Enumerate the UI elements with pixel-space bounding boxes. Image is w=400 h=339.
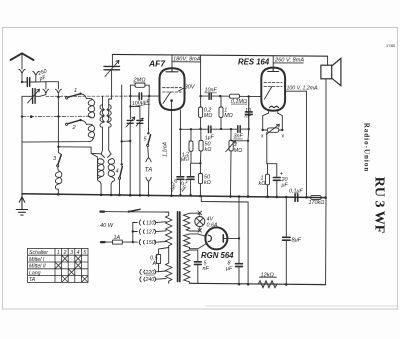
capacitor 1uF series bbox=[209, 126, 211, 133]
node bbox=[179, 194, 182, 197]
svg-text:RGN 564: RGN 564 bbox=[201, 251, 234, 260]
oscillator vertical to switch 4 bbox=[121, 85, 123, 165]
bottom rail bbox=[190, 283, 326, 284]
selector sockets bbox=[133, 220, 145, 225]
RES164 cathode arcs bbox=[270, 106, 279, 107]
wire trimmer1 down to bus bbox=[129, 123, 131, 194]
node bbox=[219, 95, 221, 97]
node bbox=[189, 194, 192, 197]
wire to coil E bbox=[58, 147, 91, 154]
top bus bbox=[112, 54, 327, 56]
wire coilB bottom to left rail bbox=[22, 139, 93, 142]
svg-text:0,1MΩ: 0,1MΩ bbox=[231, 99, 247, 105]
capacitor 3nF series bbox=[238, 126, 240, 133]
svg-text:3nF: 3nF bbox=[234, 134, 244, 140]
capacitor 8uF right bbox=[283, 237, 290, 240]
transformer E/F with former bbox=[91, 154, 101, 180]
svg-text:180V; 8mA: 180V; 8mA bbox=[173, 57, 201, 63]
potentiometer hum bbox=[267, 128, 279, 132]
X marks bbox=[62, 255, 69, 262]
resistor 50k upper bbox=[199, 129, 202, 163]
grid cap wire bbox=[129, 85, 131, 96]
wire AF7 cathode down to bus bbox=[171, 101, 173, 196]
switch 3 bbox=[58, 153, 61, 155]
wire grid-node right to AF7 bbox=[149, 95, 160, 97]
resistor 1,2M bbox=[190, 129, 192, 163]
tube RES164 neck bbox=[263, 110, 283, 130]
wire coil D bottom down bbox=[109, 127, 111, 154]
capacitor 100pF grid bbox=[130, 85, 149, 96]
ground bbox=[16, 194, 27, 215]
svg-text:1: 1 bbox=[57, 250, 60, 256]
node bbox=[179, 128, 181, 130]
wire to TA jack bbox=[147, 147, 150, 158]
antenna bbox=[11, 53, 34, 60]
wire 2M top to 248 bbox=[231, 140, 248, 142]
svg-text:170kΩ: 170kΩ bbox=[309, 200, 325, 206]
wire 180V underline bbox=[172, 61, 200, 63]
svg-text:40 W: 40 W bbox=[100, 223, 114, 229]
TA jack upper bbox=[146, 158, 151, 162]
wire coil C top to grid line bbox=[102, 96, 104, 104]
svg-text:10nF: 10nF bbox=[205, 88, 218, 94]
svg-text:A: A bbox=[152, 261, 157, 267]
wire bus stub to heater line bbox=[201, 196, 248, 284]
node bbox=[57, 146, 59, 148]
switch 2 bbox=[66, 123, 68, 125]
wire RES grid node down bbox=[248, 95, 250, 97]
svg-text:Lang: Lang bbox=[29, 270, 41, 276]
node bbox=[230, 128, 232, 130]
wire bbox=[122, 140, 131, 142]
switch table bbox=[28, 248, 88, 282]
AF7 cathode bbox=[170, 99, 173, 102]
transformer primary tap plugs bbox=[140, 269, 145, 274]
svg-text:0,1μF: 0,1μF bbox=[289, 188, 303, 194]
wire 100V line bbox=[285, 91, 306, 197]
node bbox=[199, 162, 201, 164]
svg-text:1: 1 bbox=[74, 88, 77, 94]
svg-text:Mittel II: Mittel II bbox=[29, 264, 46, 270]
wire speaker return bbox=[325, 79, 327, 285]
svg-text:4: 4 bbox=[116, 169, 119, 175]
wire y129 bbox=[180, 128, 207, 130]
dial lamp loop bbox=[190, 213, 200, 231]
svg-text:MΩ: MΩ bbox=[224, 113, 233, 119]
wire from left socket to trimmer bbox=[35, 95, 46, 97]
svg-text:MΩ: MΩ bbox=[234, 148, 243, 154]
svg-text:0,6A: 0,6A bbox=[207, 223, 218, 229]
wires to RGN bbox=[190, 234, 207, 249]
wire trimmer2 down to bus bbox=[139, 123, 141, 194]
svg-text:TA: TA bbox=[145, 167, 153, 174]
wire bridge bbox=[46, 82, 59, 89]
wire trimmer to left rail bbox=[22, 96, 33, 194]
coil C bbox=[55, 167, 61, 194]
variable capacitor ant trimmer bbox=[33, 89, 36, 104]
svg-text:150: 150 bbox=[146, 240, 155, 246]
svg-text:kΩ: kΩ bbox=[205, 147, 212, 153]
RES164 grid dashes bbox=[264, 83, 282, 87]
wire x248 vertical bbox=[247, 96, 250, 196]
svg-text:nF: nF bbox=[203, 266, 210, 272]
main bus bbox=[22, 194, 326, 198]
dashed gang line (grid) bbox=[46, 95, 130, 97]
wire RGN to filter bbox=[223, 237, 239, 239]
node bbox=[129, 95, 131, 97]
mains switch wire bbox=[100, 211, 168, 214]
wire 8uF right branch bbox=[285, 197, 287, 237]
svg-text:1A: 1A bbox=[114, 235, 121, 241]
node RES grid bbox=[248, 95, 250, 97]
HT secondary bbox=[184, 250, 190, 283]
svg-text:2MΩ: 2MΩ bbox=[133, 78, 147, 84]
resistor 12k zigzag bbox=[258, 281, 277, 288]
capacitor C-ant series bbox=[22, 81, 36, 83]
wire top bus left end down to trimmer bbox=[111, 54, 113, 66]
RGN anode left bbox=[208, 235, 211, 241]
capacitor 20uF bbox=[273, 178, 280, 181]
variable capacitor osc trimmer 2 bbox=[137, 120, 143, 123]
mains selector vertical bbox=[132, 223, 134, 243]
AF7 inner lead bbox=[163, 92, 171, 104]
node bbox=[148, 95, 150, 97]
capacitor 0,1uF bbox=[286, 196, 306, 198]
fuse 1A bbox=[101, 241, 133, 243]
wire coil D top to top trimmer bbox=[109, 70, 112, 105]
x mark lamp bottom bbox=[198, 229, 202, 233]
resistor 0,1M bbox=[220, 95, 249, 97]
svg-text:127: 127 bbox=[146, 230, 156, 236]
node antenna junction bbox=[21, 81, 23, 83]
svg-text:Schalter: Schalter bbox=[29, 250, 48, 256]
speaker bbox=[321, 65, 332, 79]
svg-text:3: 3 bbox=[70, 250, 73, 256]
resistor 170k bbox=[307, 196, 326, 198]
node bbox=[129, 105, 131, 107]
fuse 0,5A bbox=[159, 248, 169, 272]
svg-text:1,1mA: 1,1mA bbox=[163, 141, 169, 157]
svg-text:240: 240 bbox=[145, 277, 155, 283]
resistor 1M bbox=[220, 96, 222, 129]
antenna plug socket bbox=[19, 69, 25, 74]
svg-text:MΩ: MΩ bbox=[204, 113, 213, 119]
RGN filament secondary bbox=[184, 234, 190, 249]
svg-text:8μF: 8μF bbox=[292, 238, 302, 244]
svg-text:TA: TA bbox=[29, 277, 36, 283]
transformer C/D windings bbox=[100, 105, 104, 128]
resistor 0,2M bbox=[200, 96, 202, 129]
coil A bbox=[86, 98, 94, 117]
wire bbox=[36, 82, 46, 89]
capacitor 5nF bbox=[194, 262, 201, 265]
svg-text:RES 164: RES 164 bbox=[238, 57, 270, 66]
variable capacitor osc trimmer 1 bbox=[127, 120, 133, 123]
transformer core bbox=[178, 212, 180, 282]
capacitor 8uF left bbox=[238, 238, 240, 263]
node bbox=[190, 128, 192, 130]
node bbox=[199, 128, 201, 130]
wire trimmer tops bbox=[130, 96, 140, 119]
AF7 anode bbox=[166, 68, 178, 72]
svg-text:100 V, 1,2mA: 100 V, 1,2mA bbox=[287, 86, 319, 92]
switch 4 bbox=[121, 163, 123, 165]
node bbox=[248, 128, 250, 130]
wire HT top to 5nF bbox=[190, 250, 198, 261]
svg-text:260 V; 8mA: 260 V; 8mA bbox=[274, 58, 304, 64]
wire 1,2M bottom to 50k top bbox=[191, 162, 200, 164]
wire bus riser at 200.6 bbox=[200, 55, 202, 96]
tube AF7 envelope bbox=[160, 68, 185, 110]
AF7 grid dashes bbox=[163, 88, 182, 92]
resistor 50k lower bbox=[199, 163, 201, 195]
dash-dot link line bbox=[22, 115, 90, 117]
svg-text:4: 4 bbox=[77, 250, 80, 256]
switch 1 bbox=[66, 97, 68, 99]
RGN electrode right bbox=[222, 235, 224, 242]
node bbox=[220, 128, 222, 130]
wire AF7 screen down bbox=[179, 110, 181, 129]
potentiometer 2M bbox=[230, 129, 233, 195]
wire speaker feed bbox=[327, 56, 329, 65]
wire RES anode riser bbox=[272, 56, 274, 68]
left bus vertical bbox=[57, 97, 59, 152]
svg-text:nF: nF bbox=[245, 114, 252, 120]
resistor 2MOhm grid bbox=[130, 84, 149, 86]
svg-text:RU 3 WF: RU 3 WF bbox=[372, 177, 387, 234]
capacitor 0,2uF bbox=[190, 163, 192, 176]
node bbox=[21, 115, 23, 117]
node bbox=[57, 96, 59, 98]
switch 5 bbox=[147, 132, 149, 134]
transformer primary bbox=[165, 212, 172, 263]
wire AF7 anode riser bbox=[171, 55, 173, 68]
RES164 inner lead bbox=[265, 86, 273, 99]
dial lamp bbox=[195, 217, 205, 227]
svg-text:μF: μF bbox=[225, 266, 233, 272]
node bbox=[199, 95, 201, 97]
wire RES grid bbox=[249, 95, 262, 97]
mains switch bbox=[128, 211, 130, 213]
wire down to switch 5 bbox=[147, 96, 150, 133]
tube RES164 envelope bbox=[261, 68, 285, 111]
plug socket 250pF tap bbox=[33, 71, 39, 82]
heater secondary bbox=[183, 213, 189, 231]
variable capacitor top trimmer bbox=[104, 66, 120, 69]
bus nodes bbox=[57, 193, 60, 196]
node bbox=[247, 140, 249, 142]
svg-text:30V: 30V bbox=[185, 85, 196, 91]
capacitor 0,5uF bbox=[179, 129, 181, 176]
node bbox=[129, 140, 131, 142]
capacitor 10nF coupling bbox=[201, 95, 221, 97]
wire bbox=[21, 74, 23, 82]
svg-text:μF: μF bbox=[281, 183, 289, 189]
wire F bottom to bus bbox=[111, 181, 112, 194]
svg-text:kΩ: kΩ bbox=[204, 180, 211, 186]
svg-text:AF7: AF7 bbox=[148, 58, 166, 68]
wire anode supply down bbox=[238, 197, 240, 238]
svg-text:1785: 1785 bbox=[386, 43, 396, 48]
wire 1k/20uF node bbox=[267, 164, 277, 177]
wire 260V underline bbox=[273, 62, 303, 64]
svg-text:2: 2 bbox=[63, 250, 67, 256]
coil B bbox=[86, 124, 94, 139]
svg-text:Mittel I: Mittel I bbox=[29, 257, 45, 263]
wire antenna stem bbox=[21, 54, 23, 69]
tube RGN564 bbox=[205, 227, 227, 249]
svg-text:Radio-Union: Radio-Union bbox=[363, 123, 371, 173]
primary taps wires bbox=[155, 220, 167, 224]
node bbox=[57, 115, 59, 117]
wire E bottom to bus bbox=[100, 181, 101, 194]
svg-text:110: 110 bbox=[146, 221, 154, 227]
svg-text:220: 220 bbox=[145, 270, 155, 276]
svg-text:12kΩ: 12kΩ bbox=[261, 273, 275, 279]
wire pot to cathode node bbox=[266, 132, 268, 163]
30V pointer bbox=[179, 88, 185, 91]
capacitor 10nF RES grid bbox=[248, 96, 250, 129]
svg-text:kΩ: kΩ bbox=[259, 181, 266, 187]
RES164 anode bbox=[268, 68, 279, 72]
node bbox=[121, 140, 123, 142]
plug socket left bbox=[43, 89, 49, 94]
TA jack lower bbox=[146, 177, 151, 195]
plug socket right bbox=[55, 89, 61, 97]
x mark lamp top bbox=[198, 211, 202, 215]
svg-text:5: 5 bbox=[83, 250, 86, 256]
node on link line bbox=[30, 115, 33, 118]
wire coil C bottom down bbox=[101, 127, 102, 154]
resistor 1k bbox=[267, 164, 269, 197]
